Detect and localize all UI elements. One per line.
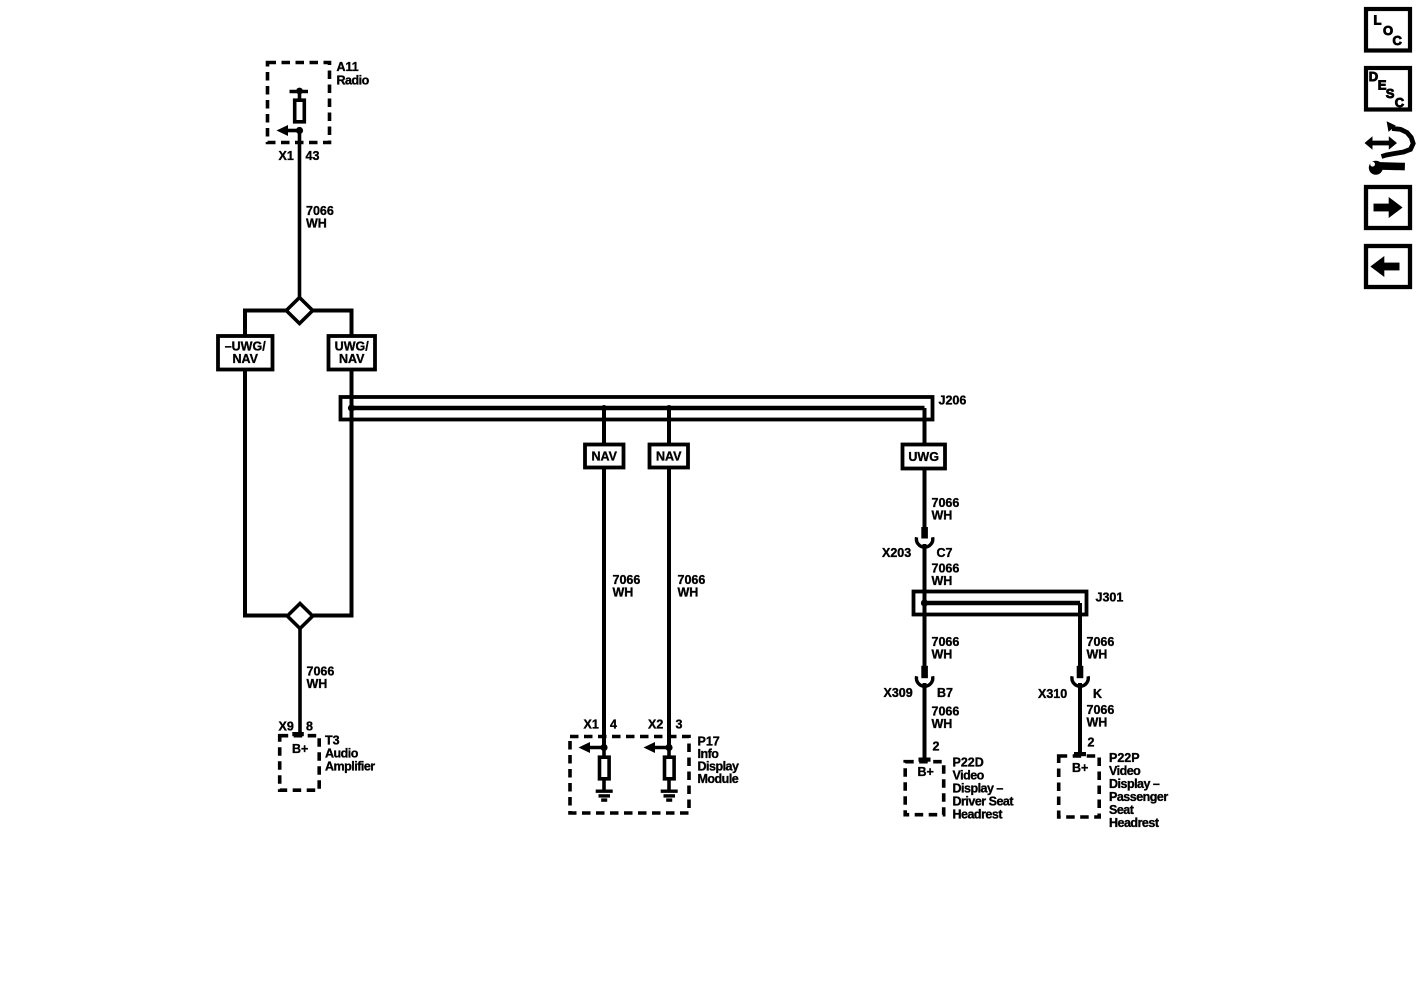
component P17 Info Display Module dashed box: [570, 735, 739, 814]
svg-text:Radio: Radio: [337, 74, 370, 88]
arrow terminal inside P17 channel 2 with junction dot: [644, 742, 673, 753]
svg-text:Display –: Display –: [1109, 777, 1160, 791]
svg-text:NAV: NAV: [232, 352, 258, 366]
splice pack J206: [341, 394, 967, 420]
splice diamond node upper: [286, 298, 312, 324]
junction dot J206 tap 2: [666, 405, 672, 411]
svg-text:Passenger: Passenger: [1109, 790, 1168, 804]
wire right branch to UWG/NAV: [313, 311, 352, 337]
svg-text:WH: WH: [307, 677, 328, 691]
junction dot J206 tap 1: [601, 405, 607, 411]
svg-text:P22P: P22P: [1109, 751, 1140, 765]
svg-text:Seat: Seat: [1109, 803, 1135, 817]
svg-text:K: K: [1093, 687, 1102, 701]
svg-text:WH: WH: [1087, 647, 1108, 661]
inline connector X309 B7: [884, 666, 954, 700]
svg-text:WH: WH: [932, 508, 953, 522]
svg-text:UWG: UWG: [908, 450, 939, 464]
svg-text:S: S: [1386, 86, 1395, 101]
svg-text:WH: WH: [932, 647, 953, 661]
connector X1 pin 43 labels: [279, 149, 320, 163]
svg-text:WH: WH: [1087, 715, 1108, 729]
component P22P Video Display Passenger Seat Headrest dashed box: [1059, 751, 1169, 830]
splice pack J301: [914, 591, 1124, 615]
svg-text:X9: X9: [279, 720, 294, 734]
svg-text:X2: X2: [648, 718, 663, 732]
svg-text:D: D: [1369, 69, 1378, 84]
wire 7066 WH X203 down to J301: [925, 544, 960, 604]
svg-text:WH: WH: [932, 717, 953, 731]
junction dot J206 left: [348, 404, 355, 411]
connector X9 pin 8 labels: [279, 720, 314, 734]
svg-text:C7: C7: [937, 546, 953, 560]
tap wire to NAV box 2: [667, 408, 671, 445]
resistor inside P17 channel 2: [665, 748, 675, 792]
tap wire to NAV box 1: [602, 408, 606, 445]
svg-text:NAV: NAV: [591, 450, 617, 464]
option label box NAV 1: [585, 445, 624, 468]
wire 7066 WH X310 down to P22P pin 2: [1080, 683, 1114, 753]
svg-text:WH: WH: [306, 217, 327, 231]
splice diamond node lower: [287, 604, 312, 629]
inline connector X310 K: [1038, 666, 1102, 701]
wire 7066 WH NAV2 down to P17: [669, 468, 705, 748]
svg-text:Audio: Audio: [325, 747, 359, 761]
ground symbol P17 channel 1: [596, 791, 613, 800]
svg-text:WH: WH: [613, 585, 634, 599]
svg-text:T3: T3: [325, 734, 340, 748]
svg-text:2: 2: [933, 740, 940, 754]
icon schematic navigation squiggle: [1365, 121, 1414, 175]
component P22D Video Display Driver Seat Headrest dashed box: [905, 756, 1014, 822]
terminal bar at T3 B+: [292, 732, 304, 736]
resistor inside P17 channel 1: [600, 748, 610, 792]
antenna terminal bar inside A11: [290, 88, 309, 100]
svg-text:C: C: [1393, 33, 1403, 48]
svg-text:Headrest: Headrest: [953, 808, 1004, 822]
svg-text:3: 3: [676, 718, 683, 732]
svg-text:X310: X310: [1038, 687, 1067, 701]
svg-text:43: 43: [306, 149, 320, 163]
svg-text:4: 4: [610, 718, 617, 732]
svg-text:Display –: Display –: [953, 782, 1004, 796]
wire 7066 WH J301 down to X309: [925, 603, 960, 667]
svg-text:Video: Video: [953, 769, 985, 783]
wire 7066 WH diamond down to T3: [300, 629, 334, 735]
inline connector X203 C7: [882, 527, 953, 560]
icon LOC box: [1366, 9, 1410, 51]
svg-text:B7: B7: [937, 686, 953, 700]
wire left branch to -UWG/NAV: [245, 311, 286, 337]
component T3 Audio Amplifier dashed box: [280, 734, 376, 791]
svg-text:A11: A11: [337, 60, 359, 74]
connector labels X1 4 and X2 3 at P17: [584, 718, 683, 732]
tap wire to UWG box: [923, 408, 927, 445]
svg-text:B+: B+: [1072, 761, 1088, 775]
wire 7066 WH NAV1 down to P17: [604, 468, 640, 748]
component A11 Radio dashed box: [268, 60, 370, 143]
svg-text:P22D: P22D: [953, 756, 984, 770]
svg-text:X1: X1: [584, 718, 599, 732]
svg-text:Video: Video: [1109, 764, 1141, 778]
svg-text:X203: X203: [882, 546, 911, 560]
option label box UWG/NAV: [329, 336, 376, 370]
icon DESC box: [1366, 68, 1410, 110]
svg-text:2: 2: [1088, 736, 1095, 750]
option label box NAV 2: [650, 445, 689, 468]
wire 7066 WH UWG down to X203: [925, 469, 960, 529]
option label box -UWG/NAV: [218, 336, 273, 370]
svg-text:Module: Module: [698, 772, 739, 786]
option label box UWG: [903, 445, 946, 469]
svg-text:J301: J301: [1096, 591, 1124, 605]
arrow terminal inside P17 channel 1 with junction dot: [579, 742, 608, 753]
wire 7066 WH J301 down to X310: [1080, 603, 1114, 667]
svg-text:J206: J206: [939, 394, 967, 408]
terminal bar at P22P B+: [1074, 752, 1086, 756]
wire 7066 WH from radio down to splice diamond: [300, 131, 334, 299]
svg-text:Amplifier: Amplifier: [325, 760, 375, 774]
svg-text:NAV: NAV: [339, 352, 365, 366]
svg-text:Driver Seat: Driver Seat: [953, 795, 1015, 809]
ground symbol P17 channel 2: [661, 791, 678, 800]
wire 7066 WH X309 down to P22D pin 2: [925, 683, 960, 758]
wire left vertical from -UWG/NAV down to splice diamond lower: [245, 370, 287, 616]
svg-text:8: 8: [306, 720, 313, 734]
wire right vertical from UWG/NAV through J206 down to splice diamond lower: [313, 370, 351, 616]
svg-text:B+: B+: [918, 765, 934, 779]
arrow terminal inside A11 with junction dot: [277, 125, 304, 136]
svg-text:WH: WH: [932, 574, 953, 588]
svg-text:WH: WH: [678, 585, 699, 599]
svg-text:C: C: [1395, 95, 1405, 110]
svg-text:L: L: [1374, 13, 1382, 28]
junction dot J301: [921, 599, 928, 606]
svg-text:B+: B+: [292, 742, 308, 756]
svg-text:X309: X309: [884, 686, 913, 700]
resistor element inside A11: [295, 100, 305, 122]
terminal bar at P22D B+: [919, 758, 931, 762]
svg-text:X1: X1: [279, 149, 294, 163]
icon arrow right box: [1366, 187, 1410, 228]
icon arrow left box: [1366, 246, 1410, 287]
svg-text:Headrest: Headrest: [1109, 816, 1160, 830]
svg-text:NAV: NAV: [656, 450, 682, 464]
